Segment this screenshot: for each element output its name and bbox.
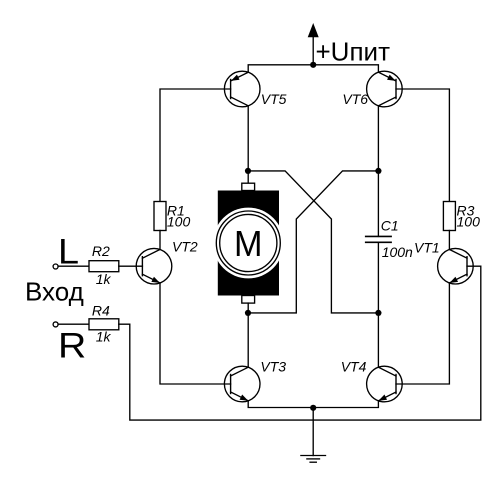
wire: L input to R2 <box>58 265 89 267</box>
wire: VT4 emitter to ground node <box>313 401 378 408</box>
wire: top supply rail <box>248 65 378 73</box>
resistor R2 <box>89 261 119 272</box>
svg-text:VT2: VT2 <box>172 239 198 255</box>
junction: C1 top node <box>375 168 381 174</box>
junction: ground node <box>310 405 316 411</box>
wire: R4 to VT1 base <box>119 266 481 420</box>
power arrow +Uпит <box>308 23 319 37</box>
junction: supply node <box>310 62 316 68</box>
svg-text:1k: 1k <box>96 271 112 287</box>
svg-text:+Uпит: +Uпит <box>316 37 391 67</box>
wire: VT5 base to R1 <box>160 89 231 202</box>
svg-text:100n: 100n <box>382 244 413 260</box>
svg-text:VT5: VT5 <box>261 91 287 107</box>
wire: motor top node to motor terminal <box>247 171 249 183</box>
wire: motor bottom node to VT3 collector <box>247 313 249 367</box>
resistor R4 <box>89 319 119 330</box>
transistor VT1 <box>438 248 474 284</box>
transistor VT3 <box>224 366 260 402</box>
terminal R input <box>53 322 58 327</box>
svg-text:VT1: VT1 <box>414 240 440 256</box>
svg-text:L: L <box>58 232 79 271</box>
svg-text:100: 100 <box>167 214 191 230</box>
svg-text:Вход: Вход <box>25 277 84 307</box>
wire: VT3 emitter to ground node <box>248 401 313 408</box>
svg-text:R2: R2 <box>92 243 110 259</box>
svg-text:R: R <box>58 325 86 365</box>
resistor R1 <box>154 202 166 231</box>
wire: C1 bottom lead <box>377 242 379 313</box>
junction: motor bottom node <box>245 310 251 316</box>
transistor VT6 <box>367 71 403 107</box>
wire: VT6 collector to C1 top node <box>377 106 379 171</box>
transistor VT2 <box>136 248 172 284</box>
svg-text:1k: 1k <box>96 329 112 345</box>
wire: R3 to VT1 collector <box>448 231 450 250</box>
motor M1 <box>213 183 284 303</box>
terminal L input <box>53 264 58 269</box>
wire: VT4 base to VT1 emitter <box>396 283 449 384</box>
wire: C1 top lead <box>377 171 379 237</box>
wire: motor terminal to motor bottom node <box>247 303 249 313</box>
wire: cross link motor top to right bottom node <box>248 171 378 313</box>
wire: R input to R4 <box>58 323 89 325</box>
svg-text:R4: R4 <box>92 302 110 318</box>
wire: VT2 emitter to VT3 base <box>160 283 231 384</box>
svg-text:VT4: VT4 <box>341 359 367 375</box>
wire: cross link right top node to motor bottom <box>248 171 378 313</box>
wire: VT5 collector to motor top node <box>247 106 249 171</box>
ground <box>301 456 326 463</box>
svg-text:100: 100 <box>457 214 481 230</box>
transistor VT5 <box>224 71 260 107</box>
wire: R1 to VT2 collector <box>159 231 161 250</box>
wire: right bottom node to VT4 collector <box>377 313 379 367</box>
capacitor C1 <box>366 236 391 242</box>
junction: motor top node <box>245 168 251 174</box>
wire: ground stem <box>312 408 314 456</box>
junction: right bottom node <box>375 310 381 316</box>
resistor R3 <box>443 202 455 231</box>
svg-text:M: M <box>234 224 262 264</box>
wire: VT6 base to R3 <box>396 89 449 202</box>
svg-text:VT6: VT6 <box>342 91 368 107</box>
svg-text:VT3: VT3 <box>260 359 286 375</box>
transistor VT4 <box>367 366 403 402</box>
svg-text:C1: C1 <box>381 218 399 234</box>
wire: R2 to VT2 base <box>119 265 143 267</box>
